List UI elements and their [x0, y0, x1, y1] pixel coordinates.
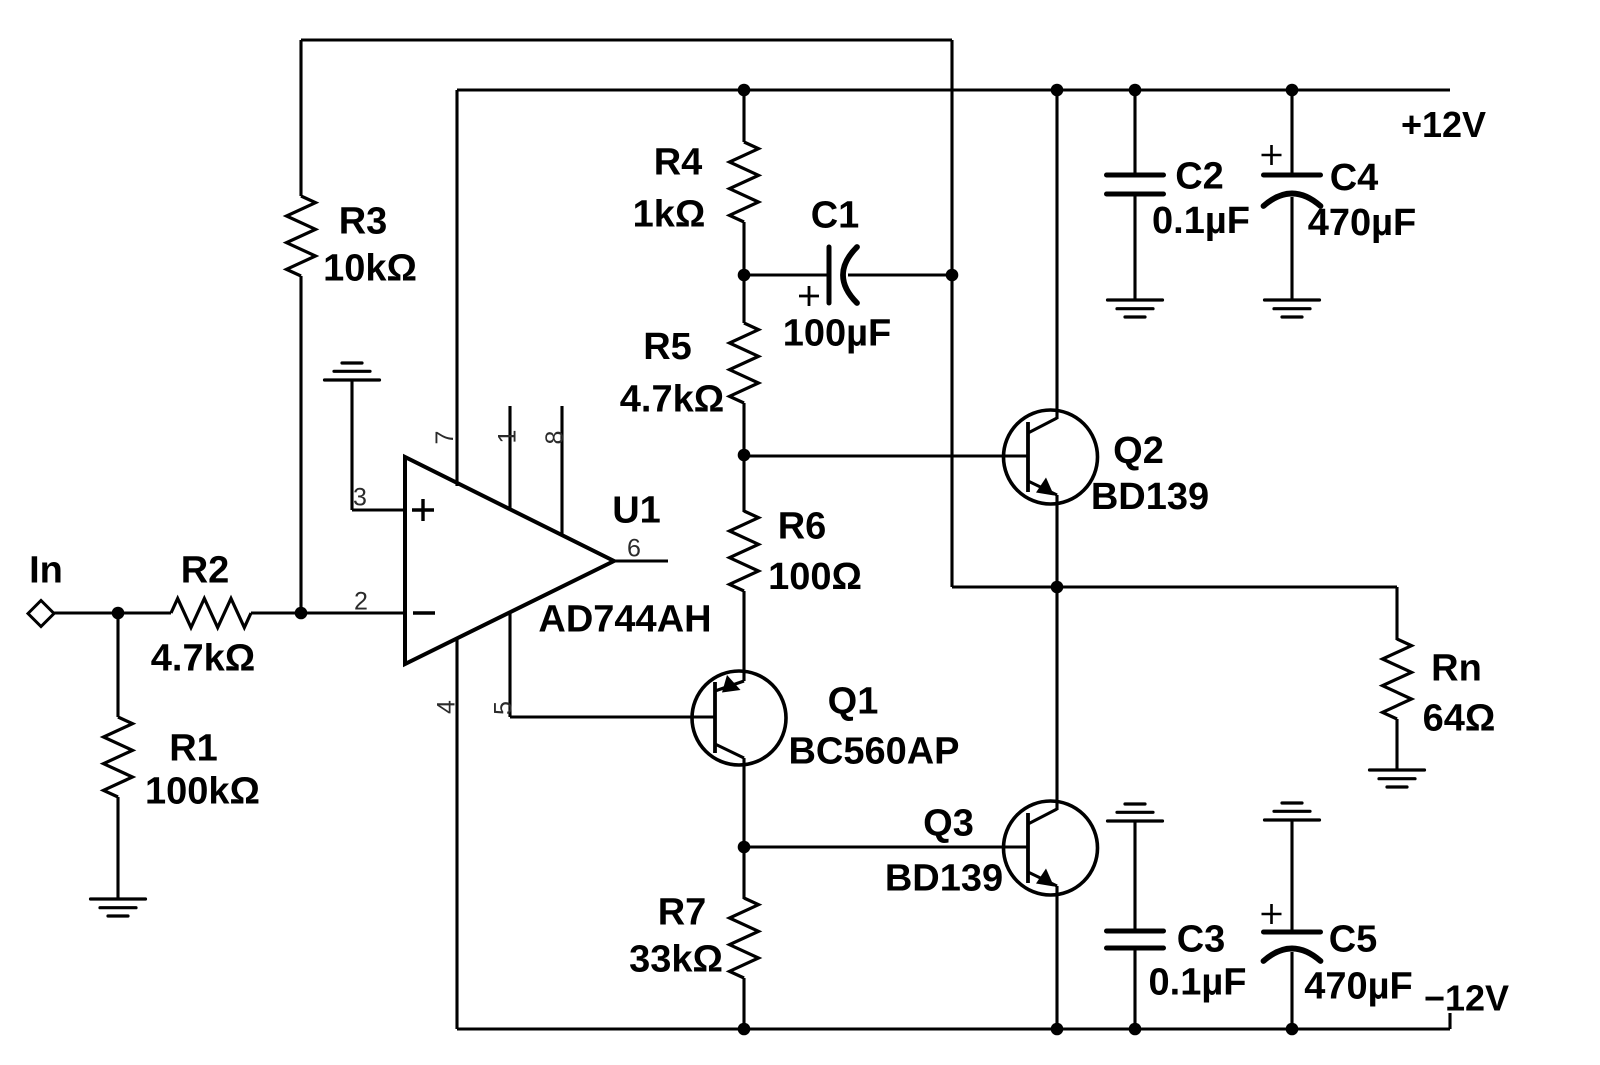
Q2 collector wire to +12V rail: [1055, 90, 1058, 419]
C5 polarity plus: [1262, 913, 1282, 916]
svg-text:0.1µF: 0.1µF: [1152, 200, 1250, 242]
wire C2 bottom lead: [1133, 194, 1136, 300]
svg-text:Q1: Q1: [828, 681, 879, 723]
wire R5 top stub: [742, 275, 745, 323]
wire op-amp pin7 vertical: [455, 90, 458, 486]
wire In to R2: [54, 611, 171, 614]
svg-text:R1: R1: [169, 728, 218, 770]
Q1 emitter arrow (PNP): [722, 675, 741, 693]
wire pin1: [508, 406, 511, 510]
ground above C5: [1265, 818, 1320, 821]
node C4 top on rail: [1286, 84, 1299, 97]
wire pin8: [560, 406, 563, 536]
wire -12V rail end tick: [1448, 1013, 1451, 1029]
capacitor C5 top plate: [1264, 930, 1321, 935]
Q1 collector diagonal: [715, 744, 744, 758]
node C2 top on rail: [1129, 84, 1142, 97]
svg-text:U1: U1: [612, 490, 661, 532]
wire Q1 collector to node: [742, 758, 745, 847]
wire R7 top stub: [742, 847, 745, 899]
transistor Q1 circle: [692, 671, 786, 765]
wire R3 top stub: [299, 40, 302, 196]
wire R5 bottom stub: [742, 403, 745, 455]
capacitor C4 curved plate: [1264, 194, 1321, 207]
svg-text:Q3: Q3: [923, 803, 974, 845]
wire pin5 horizontal to Q1 base: [510, 715, 716, 718]
wire pin3 stub: [352, 508, 405, 511]
wire C3 top lead: [1133, 821, 1136, 931]
svg-text:0.1µF: 0.1µF: [1149, 962, 1247, 1004]
svg-text:5: 5: [490, 701, 518, 715]
svg-text:4.7kΩ: 4.7kΩ: [151, 638, 255, 680]
resistor R7: [730, 898, 759, 978]
node inverting input junction: [295, 607, 308, 620]
Q2 collector diagonal: [1028, 418, 1057, 433]
capacitor C3 plates: [1107, 929, 1164, 934]
wire C3 bottom lead: [1133, 948, 1136, 1029]
resistor Rn: [1383, 639, 1412, 719]
wire +12V rail y=90: [457, 88, 1450, 91]
wire R3 bottom to inverting node: [299, 276, 302, 613]
wire R2 to op-amp pin2: [251, 611, 405, 614]
Q3 collector diagonal: [1028, 809, 1057, 824]
ground above C3: [1108, 819, 1163, 822]
svg-text:C4: C4: [1330, 157, 1379, 199]
Q3 emitter diagonal: [1028, 872, 1057, 886]
node R4/R5/C1 junction: [738, 269, 751, 282]
svg-text:4: 4: [433, 700, 461, 714]
wire pin6 output stub: [614, 559, 668, 562]
wire R4 bottom to C1 node: [742, 222, 745, 275]
wire Q3 base horizontal: [744, 845, 1028, 848]
op-amp minus mark: [413, 611, 435, 614]
transistor Q2 circle: [1004, 410, 1098, 504]
svg-text:Q2: Q2: [1113, 430, 1164, 472]
wire pin4 vertical to negative rail: [455, 637, 458, 1029]
resistor R1: [104, 717, 133, 797]
capacitor C5 curved plate: [1264, 949, 1321, 962]
wire Rn top stub: [1395, 587, 1398, 640]
svg-text:R6: R6: [778, 506, 827, 548]
node C3 bottom on rail: [1129, 1023, 1142, 1036]
svg-text:R4: R4: [654, 142, 703, 184]
wire pin5 vertical: [508, 612, 511, 717]
svg-text:10kΩ: 10kΩ: [323, 248, 417, 290]
wire output horizontal y=587 to Rn corner: [952, 585, 1397, 588]
wire C2 top lead: [1133, 90, 1136, 175]
wire C4 bottom lead: [1290, 197, 1293, 300]
svg-text:+12V: +12V: [1401, 104, 1486, 145]
terminal In diamond: [28, 601, 54, 627]
wire vertical drop x=952 from top wire to C1 node: [950, 40, 953, 275]
svg-text:6: 6: [627, 535, 641, 563]
wire Q3 collector from output node: [1055, 587, 1058, 810]
Q2 emitter arrow: [1036, 478, 1054, 496]
resistor R6: [730, 511, 759, 591]
C4 polarity plus: [1262, 154, 1282, 157]
Q2 emitter diagonal: [1028, 481, 1057, 495]
svg-text:100µF: 100µF: [783, 313, 892, 355]
Q1 base bar: [713, 682, 717, 753]
svg-text:C1: C1: [811, 195, 860, 237]
ground below Rn: [1370, 768, 1425, 771]
node Q2 collector on rail: [1051, 84, 1064, 97]
svg-text:Rn: Rn: [1431, 648, 1482, 690]
svg-text:−12V: −12V: [1424, 978, 1509, 1019]
svg-text:C2: C2: [1175, 156, 1224, 198]
wire Q3 emitter to -12V rail: [1055, 886, 1058, 1029]
svg-text:In: In: [29, 550, 63, 592]
wire C4 top lead: [1290, 90, 1293, 175]
capacitor C4 top plate: [1264, 173, 1321, 178]
resistor R4: [730, 142, 759, 222]
ground above op-amp pin3: [325, 378, 380, 381]
svg-text:C3: C3: [1177, 919, 1226, 961]
svg-text:100kΩ: 100kΩ: [145, 771, 260, 813]
wire Q2 base horizontal: [744, 454, 1028, 457]
wire R6 top stub: [742, 455, 745, 512]
svg-text:100Ω: 100Ω: [768, 556, 862, 598]
Q3 base bar: [1026, 813, 1030, 883]
wire vertical x=952 from C1 node to output corner: [950, 275, 953, 587]
wire Rn bottom stub: [1395, 719, 1398, 770]
transistor Q3 circle: [1004, 801, 1098, 895]
svg-text:470µF: 470µF: [1308, 202, 1417, 244]
wire top feedback from R3 top to vertical drop: [301, 38, 952, 41]
node C1 right junction: [946, 269, 959, 282]
svg-text:8: 8: [541, 431, 569, 445]
capacitor C2 plates: [1107, 173, 1164, 178]
svg-text:BD139: BD139: [885, 858, 1003, 900]
svg-text:64Ω: 64Ω: [1423, 698, 1496, 740]
Q2 base bar: [1026, 422, 1030, 492]
wire C1 left lead: [744, 273, 829, 276]
svg-text:BD139: BD139: [1091, 476, 1209, 518]
node R7 bottom on -12V rail: [738, 1023, 751, 1036]
wire R4 top stub: [742, 90, 745, 142]
node Q1-collector/R7/Q3-base junction: [738, 841, 751, 854]
wire C1 right lead: [848, 273, 952, 276]
wire R1 top stub: [116, 613, 119, 717]
wire R6 bottom to Q1 emitter: [742, 591, 745, 681]
svg-text:R5: R5: [643, 326, 692, 368]
ground below R1: [91, 897, 146, 900]
node C5 bottom on rail: [1286, 1023, 1299, 1036]
wire C5 bottom lead: [1290, 952, 1293, 1029]
svg-text:4.7kΩ: 4.7kΩ: [620, 379, 724, 421]
capacitor C1 plates: [827, 247, 832, 303]
resistor R5: [730, 323, 759, 403]
wire R7 bottom stub: [742, 978, 745, 1029]
svg-text:3: 3: [353, 484, 367, 512]
node R4 top on +12V rail: [738, 84, 751, 97]
svg-text:1: 1: [494, 430, 522, 444]
wire Q2 emitter down to output node: [1055, 495, 1058, 587]
svg-text:C5: C5: [1329, 919, 1378, 961]
svg-text:AD744AH: AD744AH: [538, 599, 711, 641]
svg-text:BC560AP: BC560AP: [788, 731, 959, 773]
Q1 emitter diagonal: [715, 681, 744, 691]
wire pin3 ground stub: [350, 380, 353, 510]
wire -12V rail y=1029: [457, 1027, 1450, 1030]
svg-text:1kΩ: 1kΩ: [633, 194, 706, 236]
node input junction: [112, 607, 125, 620]
wire C5 top lead: [1290, 820, 1293, 932]
Q3 emitter arrow: [1036, 869, 1054, 887]
svg-text:470µF: 470µF: [1304, 966, 1413, 1008]
svg-text:33kΩ: 33kΩ: [629, 939, 723, 981]
svg-text:R3: R3: [339, 201, 388, 243]
ground below C2: [1108, 298, 1163, 301]
node output junction: [1051, 581, 1064, 594]
op-amp U1 triangle: [405, 457, 614, 664]
op-amp plus mark: [412, 508, 434, 511]
resistor R3: [287, 196, 316, 276]
node Q3 emitter on rail: [1051, 1023, 1064, 1036]
wire R1 bottom to ground: [116, 797, 119, 899]
resistor R2: [171, 599, 251, 628]
node R5/R6/Q2-base junction: [738, 449, 751, 462]
C1 polarity plus: [799, 295, 819, 298]
ground below C4: [1265, 298, 1320, 301]
svg-text:R2: R2: [181, 550, 230, 592]
svg-text:2: 2: [354, 588, 368, 616]
svg-text:7: 7: [431, 431, 459, 445]
svg-text:R7: R7: [658, 892, 707, 934]
